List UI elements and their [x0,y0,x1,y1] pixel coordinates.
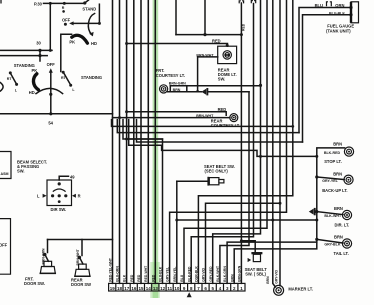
switch travel arc center [36,88,63,93]
svg-text:OFF: OFF [0,243,8,248]
label L with arrow [37,194,47,199]
svg-text:ORN: ORN [335,3,344,8]
node D top [259,84,262,87]
svg-text:13: 13 [153,286,159,291]
svg-text:SW. ( SBL): SW. ( SBL) [245,272,266,277]
node g3 trunk tee [315,155,318,158]
wire pin 8 drop with branch to right harness [191,4,253,284]
svg-text:DGR-BLK: DGR-BLK [195,266,199,282]
wire front courtesy to door connector [168,91,202,93]
lamp front courtesy [160,85,168,93]
switch wafer thick contact PK-HD [72,35,88,43]
connector inline on BLU wire [327,2,332,7]
wire cross run g3 to rear trunk [129,120,317,157]
switch wafer thick contact PK-HD left [33,74,38,90]
lamp assembly box at left edge [0,152,11,179]
wire BRN-WHT from dome switch down to courtesy node [198,57,218,92]
wire door switch run [48,239,113,241]
svg-text:30: 30 [36,40,41,45]
wire pin 7 drop with branch to right harness [198,0,292,283]
wire fuel gauge BLU-BLK [303,15,352,142]
svg-text:HD: HD [29,90,35,95]
wire pin 12 drop [127,139,163,283]
rear dome lamp switch box U1 [218,46,237,63]
dimmer switch contacts [51,182,67,203]
svg-text:R: R [62,6,65,10]
wire RED top run to rear dome feed [176,0,241,35]
green highlighted circuit trace [150,0,160,298]
wire center drop to 54 [50,94,52,114]
label REAR DOME LT. SW. [218,68,237,82]
connector seat belt switch plug [207,177,224,186]
svg-text:RED: RED [242,23,246,31]
node dome box terminal [226,44,229,47]
wire courtesy connector to right drop B [208,91,249,93]
wire 30 bus lower [0,55,47,57]
label R with arrow [72,194,81,199]
svg-text:OFF: OFF [47,62,56,67]
wire upper mid run to E drop [170,85,260,87]
svg-text:PK: PK [69,39,75,44]
wire tail lamp [317,239,343,243]
wire pin 5 drop with branch [213,0,261,283]
switch rear door jamb [75,256,90,277]
node fuel gauge BLU-BLK terminal [349,13,352,16]
svg-text:COURTESY LT.: COURTESY LT. [156,73,185,78]
svg-text:BACK-UP LT.: BACK-UP LT. [322,188,347,193]
wire cross run g1 to fuel BLU [117,120,299,133]
svg-text:15: 15 [138,286,144,291]
node g3 crossing D [259,155,262,158]
lamp rear dome [223,51,231,59]
node pin12 tap [125,138,128,141]
svg-text:BRN-YEL: BRN-YEL [173,267,177,282]
lamp marker [274,285,284,295]
wire front door switch drop [47,240,49,253]
lamp rear courtesy [230,114,238,122]
svg-text:BLU-BLK: BLU-BLK [329,11,345,15]
label FRT. DOOR SW. [24,276,45,286]
lamp back-up [344,175,353,184]
dimmer switch wire 49 [59,176,68,180]
svg-text:TAIL LT.: TAIL LT. [334,251,349,256]
node fuel gauge BLU terminal [349,6,352,9]
node P.30 taps [49,2,66,5]
svg-text:BRN: BRN [266,276,270,284]
label REAR DOOR SW [71,277,91,287]
node 54 junction [49,112,52,115]
wire right harness H to marker lamp [279,0,281,286]
svg-text:GRY-RED: GRY-RED [209,266,213,282]
svg-text:14: 14 [146,286,152,291]
dimmer switch DIR SW box [47,180,72,206]
svg-text:GRY-VIO: GRY-VIO [274,269,278,283]
svg-text:RT: RT [7,77,13,81]
switch lever RT-L right [61,71,75,92]
svg-text:ASM: ASM [1,172,9,176]
svg-text:BRN: BRN [333,171,342,176]
node pin10 tap [175,219,178,222]
wire RED to rear courtesy lamp [127,112,227,115]
wire pin 11 drop with branch to right harness [170,0,287,283]
arc fragment at left edge [0,83,3,91]
svg-text:BLU: BLU [315,3,323,8]
labels terminal wire colors vertical [108,257,241,282]
svg-text:P.30: P.30 [34,2,43,7]
svg-text:(SEC ONLY): (SEC ONLY) [205,168,229,173]
lamp direction [342,210,351,219]
wire 30 bus upper [0,49,52,51]
node right harness tap H [279,202,282,205]
wire P.30 bus [44,2,84,4]
svg-text:BRN-GRN: BRN-GRN [169,81,186,85]
svg-text:10: 10 [174,286,180,291]
svg-text:BLK-WHT: BLK-WHT [324,214,342,218]
svg-text:OFF: OFF [62,18,71,23]
node pin1/SBL junction [240,239,243,242]
connector seat belt SBL plug [248,252,263,262]
arrow indicator below pin 8 [187,292,192,297]
svg-text:BLK: BLK [123,274,127,282]
svg-text:RED: RED [137,274,141,282]
contact OFF upper [64,23,67,26]
svg-text:BLU-ORN: BLU-ORN [116,266,120,282]
svg-text:BLU: BLU [180,274,184,282]
wire PK branch down [61,34,72,71]
svg-text:BLK-RED: BLK-RED [324,151,341,155]
connector inline at top of C wire [251,1,255,4]
svg-text:GRY-BLK: GRY-BLK [324,242,340,246]
label R with contact [62,6,65,13]
node right harness tap F [271,219,274,222]
node RED junction [203,33,206,36]
node dome feed tap [125,42,128,45]
label REAR COURTESY LT [211,119,240,128]
wire pin 10 drop / seat belt switch feed [176,181,178,283]
wire pin 1 drop full height RED feed [240,3,242,283]
svg-text:STAND: STAND [82,7,96,12]
wire rear dome lamp feed from harness [127,44,228,47]
switch lever RT-L left [7,71,18,92]
connector single pin front courtesy [201,88,208,95]
svg-text:DIR. LT.: DIR. LT. [335,223,350,228]
svg-text:12: 12 [160,286,166,291]
wire direction lamp [317,212,343,215]
switch front door jamb [40,253,55,274]
svg-text:GRY-VIO: GRY-VIO [202,267,206,281]
node pin1 RED tee [240,33,243,36]
wire 30 stub [39,50,41,61]
svg-text:17: 17 [124,286,130,291]
svg-text:54: 54 [48,121,53,126]
wire BRN-WHT to rear courtesy lamp [113,117,230,119]
connector strip terminal boxes 19-1 [109,283,245,291]
label SEAT BELT SW. (SEC ONLY) [204,164,235,174]
svg-text:MARKER LT.: MARKER LT. [288,287,312,292]
svg-text:BLK-WHT: BLK-WHT [216,265,220,282]
wire trunk rear lighting [317,148,345,240]
wire cross run g2b to fuel BLU-BLK [137,120,303,142]
svg-text:DOOR SW: DOOR SW [71,282,91,287]
svg-text:SW.: SW. [17,168,25,173]
svg-text:RED-WHT: RED-WHT [144,265,148,282]
wire seat belt switch feed [177,180,208,182]
svg-text:11: 11 [167,286,172,291]
svg-text:BLK-RED: BLK-RED [187,266,191,282]
wire cross run g2 to pin12 [123,120,163,139]
wire pin 3 drop with branch to tail node [227,242,317,283]
contact STAND with tick [83,0,88,4]
wire P.30 drop [49,3,51,50]
wire pin 6 drop with branch to right harness [206,203,281,283]
svg-text:R: R [78,194,81,199]
svg-text:BRN-GRN: BRN-GRN [238,265,242,282]
wire pin 10 branch to right harness [177,219,317,221]
node back-up tap [315,175,318,178]
label BRN boxed [170,86,187,92]
svg-text:DOOR SW.: DOOR SW. [24,281,45,286]
svg-text:19: 19 [110,286,116,291]
svg-text:BRN: BRN [230,274,234,282]
node RED tap [125,110,128,113]
label FRT. COURTESY LT. [156,68,185,78]
connector single pin direction lamp [309,208,316,215]
svg-text:BLU-BLK: BLU-BLK [159,266,163,282]
wire pin 2 drop with branch to tail node [234,239,317,283]
svg-text:STANDING: STANDING [81,75,102,80]
svg-text:BLK-GRN: BLK-GRN [223,266,227,282]
wire pin 9 drop with branch to right harness [184,0,267,283]
wire wiper arm with arrow to OFF [69,4,101,25]
fuel gauge tank unit box [351,2,359,23]
wire fuel gauge BLU [299,8,351,133]
svg-text:HD: HD [91,41,97,46]
wire rear door switch drop [81,240,83,256]
svg-text:(TANK UNIT): (TANK UNIT) [326,28,351,33]
svg-text:49: 49 [70,174,75,179]
scan mark top left corner [0,0,2,4]
svg-text:GRY-YEL: GRY-YEL [322,179,338,183]
svg-text:BRN: BRN [334,235,343,240]
node direction tap [315,210,318,213]
svg-text:RED: RED [130,274,134,282]
svg-text:16: 16 [131,286,137,291]
node tail tap [315,238,318,241]
wire harness bundle left (to pins 19-14) [113,0,149,283]
svg-text:GRY-YEL: GRY-YEL [166,267,170,282]
label BEAM SELECT. & PASSING SW. [17,159,47,173]
wire 54 feed from headlamp switch [0,113,113,115]
svg-text:SW.: SW. [218,77,226,82]
svg-text:STOP LT.: STOP LT. [324,159,342,164]
component box at left edge lower [0,219,11,275]
wire cross run g0 [112,120,293,127]
svg-text:BRN: BRN [333,142,342,147]
svg-text:RED-YEL-WHT: RED-YEL-WHT [108,257,112,282]
svg-text:BRN: BRN [334,206,343,211]
labels terminal numbers [110,286,243,291]
label SEAT BELT SW. (SBL) [245,267,268,277]
node g0 right on J [291,125,294,128]
switch travel arc with arrowhead [88,14,94,37]
wire SBL branch from pin1 node [241,241,255,252]
wire right harness F to marker lamp [273,0,276,287]
wiper arrow center pointing up [49,68,53,96]
wire green trace conductor (pin 13) [154,0,156,283]
lamp stop [344,147,353,156]
lamp tail [342,239,351,248]
svg-text:DIR SW.: DIR SW. [51,207,67,212]
node 30 taps [38,49,51,57]
svg-text:RED: RED [151,274,155,282]
wire pin 4 drop with branch [220,92,249,284]
svg-text:18: 18 [117,286,123,291]
wire back-up lamp [317,177,344,180]
node BRN-WHT tap [118,116,121,119]
connector inline at top of pin1 wire [239,1,243,4]
